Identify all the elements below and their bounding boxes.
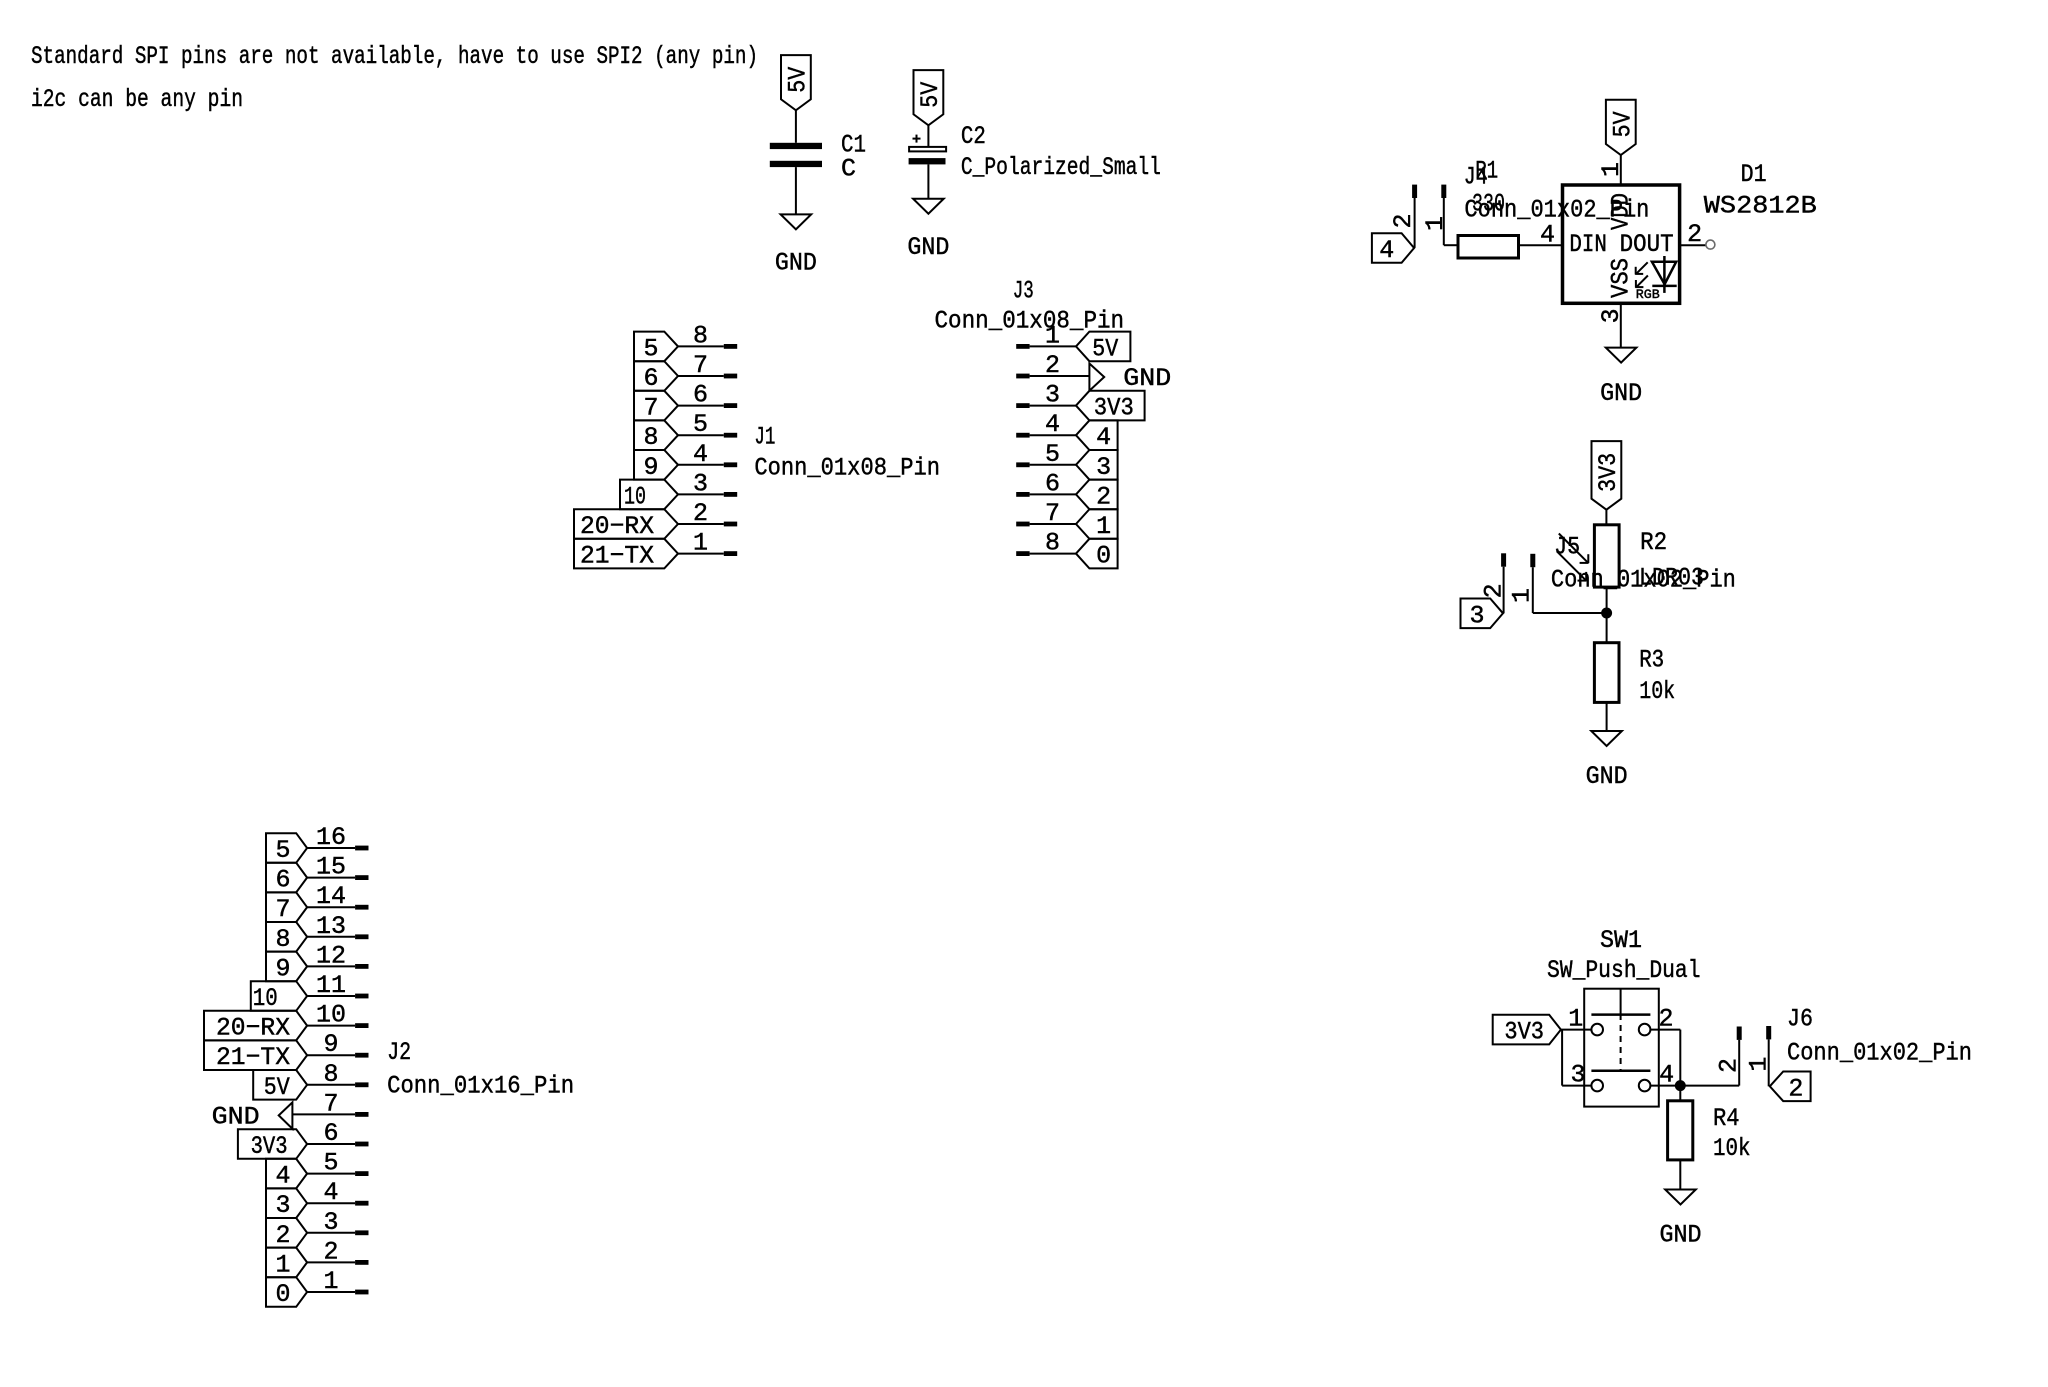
J1 pin 3 wire <box>678 493 724 495</box>
net label 2 (J6) <box>1770 1072 1811 1102</box>
svg-text:5V: 5V <box>264 1073 290 1102</box>
net label 3V3 (SW1) <box>1493 1015 1561 1045</box>
svg-text:20−RX: 20−RX <box>216 1014 290 1043</box>
ground (R3) <box>1591 731 1622 746</box>
D1 pin 2 wire <box>1680 244 1706 246</box>
svg-text:9: 9 <box>275 954 290 983</box>
svg-text:DOUT: DOUT <box>1620 230 1674 259</box>
J2 pin 3 wire <box>307 1232 355 1234</box>
J4 pin 1 <box>1441 185 1446 198</box>
net label 10 (J2 pin 11) <box>251 981 307 1011</box>
svg-text:C: C <box>841 155 856 184</box>
J3 pin 6 wire <box>1030 493 1076 495</box>
svg-text:1: 1 <box>275 1250 290 1279</box>
svg-text:4: 4 <box>1045 410 1060 439</box>
svg-text:2: 2 <box>693 499 708 528</box>
D1 LED symbol <box>1652 262 1676 285</box>
svg-text:J5: J5 <box>1554 532 1580 561</box>
J2 pin 10 wire <box>307 1025 355 1027</box>
svg-text:3V3: 3V3 <box>1504 1018 1544 1047</box>
J2 pin 7 wire <box>292 1113 355 1115</box>
svg-text:2: 2 <box>323 1237 338 1266</box>
net label GND (J2 pin 7) <box>279 1102 293 1128</box>
J5 pin 1 <box>1530 554 1535 567</box>
capacitor C2 polarized <box>909 147 946 152</box>
resistor R1 <box>1458 236 1519 259</box>
J1 pin 5 wire <box>678 434 724 436</box>
svg-text:3: 3 <box>323 1208 338 1237</box>
wire SW1 pin4 to J6 <box>1650 1085 1739 1087</box>
D1 LED arrows <box>1636 262 1647 273</box>
svg-text:J1: J1 <box>754 423 775 452</box>
net label 20−RX (J2 pin 10) <box>204 1011 307 1041</box>
svg-text:20−RX: 20−RX <box>580 512 654 541</box>
net label 7 (J2 pin 14) <box>266 892 307 922</box>
svg-text:2: 2 <box>1096 482 1111 511</box>
svg-text:6: 6 <box>1045 469 1060 498</box>
svg-text:Conn_01x02_Pin: Conn_01x02_Pin <box>1551 566 1736 595</box>
svg-text:GND: GND <box>1123 364 1171 393</box>
svg-text:4: 4 <box>323 1178 338 1207</box>
svg-text:SW1: SW1 <box>1600 926 1642 955</box>
wire J4 pin1 to R1 <box>1444 244 1458 246</box>
svg-text:4: 4 <box>1096 423 1111 452</box>
svg-text:9: 9 <box>323 1030 338 1059</box>
power flag 5V (D1) <box>1606 100 1636 155</box>
svg-text:VSS: VSS <box>1607 258 1636 298</box>
J3 pin 5 wire <box>1030 464 1076 466</box>
wire 5V to D1 pin 1 <box>1620 155 1622 185</box>
J2 pin 11 wire <box>307 995 355 997</box>
svg-text:RGB: RGB <box>1636 287 1660 302</box>
svg-text:3V3: 3V3 <box>251 1132 288 1161</box>
net label 10 (J1 pin 3) <box>620 480 678 510</box>
wire junction to R4 <box>1679 1086 1681 1101</box>
svg-text:14: 14 <box>316 882 346 911</box>
J5 pin 2 <box>1501 553 1506 566</box>
no-connect circle (D1 DOUT) <box>1706 240 1715 249</box>
net label GND (J3 pin 2) <box>1089 364 1104 391</box>
svg-text:D1: D1 <box>1741 160 1767 189</box>
svg-text:3: 3 <box>1469 601 1484 630</box>
svg-text:Conn_01x02_Pin: Conn_01x02_Pin <box>1464 196 1649 225</box>
J1 pin 1 wire <box>678 553 724 555</box>
svg-text:GND: GND <box>1600 379 1642 408</box>
svg-text:J6: J6 <box>1787 1004 1813 1033</box>
svg-text:9: 9 <box>643 453 658 482</box>
svg-text:1: 1 <box>1045 321 1060 350</box>
svg-text:WS2812B: WS2812B <box>1704 191 1817 220</box>
J3 pin 3 wire <box>1030 405 1076 407</box>
svg-text:R2: R2 <box>1640 528 1667 557</box>
wire SW1 pin2 to pin4 <box>1650 1029 1680 1031</box>
svg-text:8: 8 <box>693 321 708 350</box>
svg-text:5V: 5V <box>1092 334 1118 363</box>
net label 5 (J1 pin 8) <box>634 332 678 362</box>
net label 4 (J4) <box>1372 233 1414 263</box>
net label 3 (J2 pin 4) <box>266 1188 307 1218</box>
net label 6 (J1 pin 7) <box>634 361 678 391</box>
svg-text:0: 0 <box>1096 542 1111 571</box>
svg-text:21−TX: 21−TX <box>216 1043 290 1072</box>
svg-text:4: 4 <box>693 440 708 469</box>
net label 6 (J2 pin 15) <box>266 863 307 893</box>
svg-text:R4: R4 <box>1713 1104 1740 1133</box>
svg-text:2: 2 <box>1788 1074 1803 1103</box>
J3 pin 4 wire <box>1030 434 1076 436</box>
led D1 body <box>1563 185 1680 303</box>
J1 pin 8 wire <box>678 345 724 347</box>
svg-text:R3: R3 <box>1639 646 1664 675</box>
resistor R4 <box>1668 1101 1693 1160</box>
svg-text:0: 0 <box>275 1280 290 1309</box>
J2 pin 2 wire <box>307 1261 355 1263</box>
switch SW1 body <box>1584 989 1659 1107</box>
net label 21−TX (J1 pin 1) <box>574 539 678 569</box>
wire R4 to GND <box>1679 1160 1681 1190</box>
net label 4 (J2 pin 5) <box>266 1159 307 1189</box>
svg-text:2: 2 <box>1714 1058 1743 1073</box>
svg-text:7: 7 <box>643 394 658 423</box>
J6 pin 1 <box>1766 1026 1771 1039</box>
svg-text:Conn_01x08_Pin: Conn_01x08_Pin <box>754 453 940 482</box>
svg-text:11: 11 <box>316 971 346 1000</box>
wire R2 to junction <box>1606 587 1608 613</box>
svg-text:4: 4 <box>275 1162 290 1191</box>
svg-text:10: 10 <box>253 984 278 1013</box>
J2 pin 5 wire <box>307 1173 355 1175</box>
svg-text:GND: GND <box>1586 762 1628 791</box>
J1 pin 2 wire <box>678 523 724 525</box>
svg-text:7: 7 <box>1045 499 1060 528</box>
svg-text:6: 6 <box>693 381 708 410</box>
wire 3V3 to R2 <box>1605 510 1607 525</box>
J2 pin 6 wire <box>307 1143 355 1145</box>
SW1 contact bars <box>1591 1013 1650 1016</box>
J2 pin 16 wire <box>307 847 355 849</box>
J2 pin 4 wire <box>307 1202 355 1204</box>
wire 3V3 to SW1 pin 1 <box>1561 1029 1592 1031</box>
svg-text:J4: J4 <box>1464 163 1488 192</box>
wire SW1 pin1 to pin3 <box>1561 1030 1563 1086</box>
svg-text:8: 8 <box>1045 529 1060 558</box>
svg-text:3: 3 <box>1045 381 1060 410</box>
ground (R4) <box>1665 1190 1696 1205</box>
net label 5V (J3 pin 1) <box>1076 332 1130 362</box>
svg-text:5: 5 <box>323 1149 338 1178</box>
wire C2 to GND <box>927 164 929 198</box>
net label 3V3 (J3 pin 3) <box>1076 391 1145 421</box>
svg-text:1: 1 <box>1096 512 1111 541</box>
net label 3V3 (J2 pin 6) <box>238 1129 307 1159</box>
J3 pin 7 wire <box>1030 523 1076 525</box>
net label 3 (J5) <box>1461 599 1504 629</box>
J3 pin 1 wire <box>1030 345 1076 347</box>
svg-text:7: 7 <box>275 895 290 924</box>
svg-text:1: 1 <box>693 529 708 558</box>
svg-text:1: 1 <box>1745 1057 1774 1072</box>
wire 5V to C2 <box>927 125 929 147</box>
net label 1 (J2 pin 2) <box>266 1248 307 1278</box>
net label 5V (J2 pin 8) <box>253 1070 307 1100</box>
resistor R3 <box>1594 643 1619 703</box>
svg-text:5: 5 <box>693 410 708 439</box>
svg-text:SW_Push_Dual: SW_Push_Dual <box>1547 956 1701 985</box>
net label 8 (J2 pin 13) <box>266 922 307 952</box>
R2 LDR arrows <box>1559 534 1588 563</box>
SW1 contacts <box>1591 1024 1603 1036</box>
J2 pin 13 wire <box>307 936 355 938</box>
net label 0 (J3 pin 8) <box>1076 539 1118 569</box>
net label 4 (J3 pin 4) <box>1076 420 1118 450</box>
svg-text:DIN: DIN <box>1569 230 1607 259</box>
net label 5 (J2 pin 16) <box>266 833 307 863</box>
svg-text:Standard SPI pins are not avai: Standard SPI pins are not available, hav… <box>31 42 758 71</box>
J3 pin 8 wire <box>1030 553 1076 555</box>
svg-text:2: 2 <box>1687 220 1702 249</box>
net label 7 (J1 pin 6) <box>634 391 678 421</box>
wire R1 to D1 <box>1519 244 1563 246</box>
net label 8 (J1 pin 5) <box>634 420 678 450</box>
svg-text:12: 12 <box>316 941 346 970</box>
svg-text:21−TX: 21−TX <box>580 542 654 571</box>
J2 pin 15 wire <box>307 877 355 879</box>
svg-text:3: 3 <box>693 469 708 498</box>
junction node (SW1 pin4) <box>1675 1080 1686 1091</box>
svg-text:6: 6 <box>643 364 658 393</box>
wire C1 to GND <box>795 167 797 214</box>
svg-text:C2: C2 <box>961 122 986 151</box>
ground (D1) <box>1606 348 1637 363</box>
svg-text:1: 1 <box>1597 162 1626 177</box>
svg-text:Conn_01x16_Pin: Conn_01x16_Pin <box>387 1072 574 1101</box>
capacitor C1 <box>770 143 822 149</box>
svg-text:C_Polarized_Small: C_Polarized_Small <box>961 153 1161 182</box>
svg-text:8: 8 <box>643 423 658 452</box>
svg-text:10k: 10k <box>1639 677 1675 706</box>
svg-text:3: 3 <box>1096 453 1111 482</box>
net label 9 (J2 pin 12) <box>266 952 307 982</box>
svg-text:GND: GND <box>1660 1221 1702 1250</box>
net label 2 (J3 pin 6) <box>1076 480 1118 510</box>
svg-text:2: 2 <box>1045 351 1060 380</box>
svg-text:15: 15 <box>316 853 346 882</box>
svg-text:5V: 5V <box>784 67 813 93</box>
net label 2 (J2 pin 3) <box>266 1218 307 1248</box>
power flag 3V3 (R2) <box>1592 441 1622 510</box>
svg-text:Conn_01x02_Pin: Conn_01x02_Pin <box>1787 1038 1972 1067</box>
J3 pin 2 wire <box>1030 375 1090 377</box>
photoresistor R2 <box>1594 525 1619 587</box>
svg-text:7: 7 <box>693 351 708 380</box>
svg-text:6: 6 <box>275 866 290 895</box>
svg-text:13: 13 <box>316 912 346 941</box>
net label 0 (J2 pin 1) <box>266 1277 307 1307</box>
svg-text:5: 5 <box>1045 440 1060 469</box>
J2 pin 1 wire <box>307 1291 355 1293</box>
svg-text:1: 1 <box>323 1267 338 1296</box>
wire R3 to GND <box>1606 702 1608 731</box>
svg-text:GND: GND <box>775 248 817 277</box>
svg-text:10k: 10k <box>1713 1134 1751 1163</box>
net label 20−RX (J1 pin 2) <box>574 509 678 539</box>
svg-text:i2c can be any pin: i2c can be any pin <box>31 85 243 114</box>
svg-text:1: 1 <box>1507 588 1536 603</box>
svg-text:6: 6 <box>323 1119 338 1148</box>
svg-text:5: 5 <box>643 334 658 363</box>
svg-text:5: 5 <box>275 836 290 865</box>
ground (C1) <box>781 214 812 229</box>
J1 pin 7 wire <box>678 375 724 377</box>
svg-text:16: 16 <box>316 823 346 852</box>
svg-text:10: 10 <box>624 482 646 511</box>
svg-text:2: 2 <box>1389 213 1418 228</box>
net label 21−TX (J2 pin 9) <box>204 1040 307 1070</box>
J2 pin 12 wire <box>307 965 355 967</box>
J6 pin 2 <box>1737 1027 1742 1040</box>
J2 pin 8 wire <box>307 1084 355 1086</box>
J1 pin 4 wire <box>678 464 724 466</box>
wire junction to R3 <box>1606 613 1608 643</box>
svg-text:4: 4 <box>1379 236 1394 265</box>
svg-text:8: 8 <box>275 925 290 954</box>
D1 pin 3 wire <box>1620 303 1622 347</box>
svg-text:2: 2 <box>1480 583 1509 598</box>
svg-text:J3: J3 <box>1013 276 1034 305</box>
svg-text:GND: GND <box>907 233 949 262</box>
svg-text:1: 1 <box>1421 216 1450 231</box>
power flag 5V (C2) <box>914 70 944 125</box>
wire J5 pin1 to junction <box>1533 612 1607 614</box>
svg-text:3V3: 3V3 <box>1594 453 1623 492</box>
plus sign (C2) <box>913 138 921 140</box>
svg-text:3: 3 <box>275 1191 290 1220</box>
svg-text:J2: J2 <box>387 1038 411 1067</box>
SW1 plunger <box>1620 989 1622 1014</box>
wire 5V to C1 <box>795 110 797 143</box>
J4 pin 2 <box>1412 185 1417 198</box>
ground (C2) <box>913 199 944 214</box>
svg-text:2: 2 <box>275 1221 290 1250</box>
svg-text:8: 8 <box>323 1060 338 1089</box>
power flag 5V (C1) <box>781 55 811 110</box>
svg-text:GND: GND <box>212 1102 260 1131</box>
junction node <box>1601 608 1612 619</box>
svg-text:3V3: 3V3 <box>1094 394 1134 423</box>
svg-text:5V: 5V <box>1609 111 1638 137</box>
svg-text:10: 10 <box>316 1001 346 1030</box>
J2 pin 14 wire <box>307 906 355 908</box>
net label 1 (J3 pin 7) <box>1076 509 1118 539</box>
J1 pin 6 wire <box>678 405 724 407</box>
svg-text:7: 7 <box>323 1089 338 1118</box>
svg-text:5V: 5V <box>916 82 945 108</box>
net label 3 (J3 pin 5) <box>1076 450 1118 480</box>
J2 pin 9 wire <box>307 1054 355 1056</box>
net label 9 (J1 pin 4) <box>634 450 678 480</box>
svg-text:3: 3 <box>1597 308 1626 323</box>
